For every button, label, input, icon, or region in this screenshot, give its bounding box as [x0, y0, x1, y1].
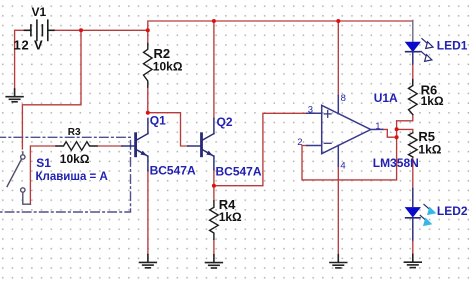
transistor Q1: [122, 118, 148, 170]
switch S1: [7, 152, 30, 204]
resistor R4: [210, 201, 219, 240]
svg-text:R3: R3: [68, 127, 81, 138]
svg-text:1kΩ: 1kΩ: [418, 143, 441, 157]
junction output node upper (R6 / R5): [395, 127, 399, 131]
wire node A down and left to switch S1 top: [22, 30, 81, 149]
svg-text:1kΩ: 1kΩ: [219, 210, 242, 224]
svg-text:LED1: LED1: [437, 38, 468, 52]
svg-text:1kΩ: 1kΩ: [421, 94, 444, 108]
svg-text:4: 4: [340, 161, 345, 172]
svg-text:3: 3: [308, 104, 313, 115]
svg-text:12 V: 12 V: [14, 38, 44, 53]
svg-text:S1: S1: [36, 156, 51, 170]
junction node A (battery to switch tap): [79, 28, 83, 32]
junction node B Q2 emitter / R4 / op-amp input: [212, 184, 216, 188]
wire feedback from inverting input pin 2 to output node: [302, 129, 397, 180]
wire R3 to Q1 base: [97, 145, 122, 147]
LED2: [406, 208, 420, 217]
svg-text:Q1: Q1: [150, 114, 166, 128]
wire rail corner down to LED1 anode: [412, 20, 414, 42]
svg-text:BC547A: BC547A: [150, 163, 196, 177]
svg-text:Q2: Q2: [217, 115, 233, 129]
junction rail / op-amp pin 8: [336, 19, 340, 23]
transistor Q1 emitter arrow: [140, 151, 147, 156]
wire V1 plus to node A (top rail left): [48, 29, 148, 31]
svg-text:LED2: LED2: [437, 204, 468, 218]
op-amp plus and minus marks: [324, 111, 331, 144]
wire pin 2 red stub: [302, 145, 307, 147]
wire S1 bottom up to R3: [30, 146, 56, 204]
wire R6 bottom to output node: [397, 115, 413, 130]
wire Q1 emitter to ground: [147, 171, 149, 255]
wire node B to op-amp noninverting input pin 3: [214, 113, 307, 185]
wire op-amp output jog to output node: [383, 129, 397, 137]
wire R2 bottom to Q1 collector node: [147, 87, 149, 113]
ground (R4): [206, 255, 223, 268]
svg-text:BC547A: BC547A: [216, 164, 262, 178]
wire top rail down to op-amp pin 8: [337, 21, 339, 96]
wire R5 bottom to LED2 anode: [412, 157, 414, 189]
wire LED1 cathode to R6: [412, 64, 414, 80]
wire op-amp pin 4 to ground: [337, 166, 339, 254]
resistor R3: [56, 142, 97, 151]
junction R2 bottom / Q1 collector / Q2 base: [146, 111, 150, 115]
wire V1 minus to ground: [15, 30, 28, 89]
transistor Q2: [188, 118, 214, 169]
battery V1: [25, 20, 55, 40]
LED1: [406, 42, 420, 51]
svg-text:Клавиша = A: Клавиша = A: [36, 171, 108, 183]
op-amp U1 (LM358N): [307, 96, 383, 167]
junction output node lower (output / feedback): [395, 135, 399, 139]
resistor R5: [409, 133, 418, 157]
ground (battery V1): [6, 89, 23, 102]
LED1 emission arrows (off, hollow): [421, 39, 433, 62]
ground (Q1 emitter): [140, 255, 157, 268]
svg-text:1: 1: [375, 121, 380, 132]
resistor R6: [409, 81, 418, 115]
resistor R2: [144, 44, 153, 88]
junction rail / Q2 collector: [212, 19, 216, 23]
svg-text:V1: V1: [32, 5, 47, 19]
junction rail / R2 top: [146, 28, 150, 32]
wire top rail step up and across to LED column: [148, 21, 413, 30]
LED2 emission arrows (on, cyan): [420, 204, 435, 225]
svg-text:LM358N: LM358N: [373, 156, 419, 170]
wire node A to R2 top: [147, 30, 149, 43]
svg-text:2: 2: [297, 137, 302, 148]
lead stub R6 top: [412, 80, 414, 86]
wire LED2 cathode to ground: [412, 240, 414, 254]
svg-text:10kΩ: 10kΩ: [60, 152, 90, 166]
svg-text:8: 8: [341, 93, 346, 104]
wire Q1 collector node to Q2 base: [148, 113, 189, 146]
selection box around S1 and R3 (dash-dot): [0, 137, 131, 212]
transistor Q2 emitter arrow: [206, 151, 213, 156]
ground (op-amp pin 4): [330, 255, 347, 268]
svg-text:U1A: U1A: [374, 91, 398, 105]
wire Q2 emitter to node B / R4 top: [213, 170, 215, 201]
ground (LED2): [404, 254, 421, 267]
svg-text:10kΩ: 10kΩ: [153, 59, 183, 73]
wire output node to R5 top: [397, 129, 413, 132]
wire R4 bottom to ground: [213, 239, 215, 255]
wire Q2 collector to top rail: [213, 21, 215, 119]
